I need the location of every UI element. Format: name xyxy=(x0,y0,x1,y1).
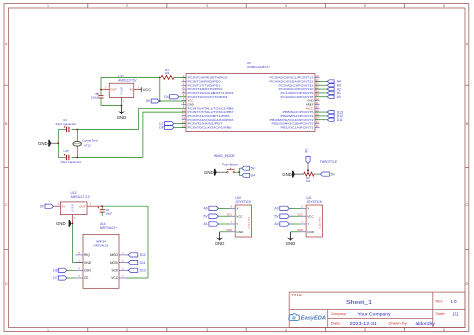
svg-text:D4: D4 xyxy=(251,174,255,178)
svg-text:JOYSTICK: JOYSTICK xyxy=(235,200,252,204)
svg-text:REV:: REV: xyxy=(436,300,444,304)
svg-text:Joystick PS2: Joystick PS2 xyxy=(318,216,321,229)
net flag 5V xyxy=(204,214,230,218)
crystal XTL2 xyxy=(73,130,99,158)
ground below U12 xyxy=(117,106,127,120)
capacitor U15 22pf xyxy=(58,149,81,164)
net flag D13 xyxy=(315,110,343,114)
svg-text:NRF24L01: NRF24L01 xyxy=(94,243,109,247)
svg-text:WING_MODE: WING_MODE xyxy=(214,154,235,158)
wire 5V rail top xyxy=(100,77,102,89)
regulator U12 AMS1117-5V xyxy=(101,75,141,106)
capacitor C4 xyxy=(91,90,104,106)
net flag A3 xyxy=(315,83,341,87)
svg-text:Joystick PS2: Joystick PS2 xyxy=(247,216,250,229)
svg-text:2: 2 xyxy=(138,86,140,89)
svg-text:7: 7 xyxy=(122,252,124,255)
capacitor C8 10uF xyxy=(98,206,113,216)
svg-text:Date:: Date: xyxy=(331,321,342,325)
svg-text:IN: IN xyxy=(62,204,65,208)
svg-text:3: 3 xyxy=(105,86,107,89)
wire gnd bottom xyxy=(101,105,122,107)
svg-text:GND: GND xyxy=(226,228,232,232)
svg-text:Company:: Company: xyxy=(331,312,347,316)
svg-text:5V: 5V xyxy=(274,214,279,218)
joystick U10 xyxy=(226,196,252,237)
svg-text:IN: IN xyxy=(130,88,133,92)
svg-text:D4: D4 xyxy=(164,95,168,99)
svg-text:X: X xyxy=(236,207,238,211)
U6 left pins xyxy=(182,75,235,129)
U14 right pins xyxy=(110,252,127,280)
svg-text:1: 1 xyxy=(74,217,76,220)
svg-text:GND: GND xyxy=(236,230,244,234)
svg-text:5V: 5V xyxy=(331,172,336,176)
ground joystick xyxy=(286,232,301,246)
svg-text:NRF24L01+: NRF24L01+ xyxy=(100,226,117,230)
svg-text:THROTTLE: THROTTLE xyxy=(320,160,338,164)
net flag D12 miso xyxy=(127,253,146,257)
svg-text:GND: GND xyxy=(38,141,48,146)
svg-text:CE: CE xyxy=(84,276,88,280)
svg-text:22pf capacitor: 22pf capacitor xyxy=(61,160,82,164)
svg-text:D7: D7 xyxy=(53,276,57,280)
svg-text:GND: GND xyxy=(286,241,296,246)
svg-text:A: A xyxy=(5,41,8,46)
svg-text:5V: 5V xyxy=(146,99,151,103)
svg-text:JOYSTICK: JOYSTICK xyxy=(306,200,323,204)
net flag 5V throttle out xyxy=(320,172,335,176)
resistor R2 10k xyxy=(304,172,314,183)
svg-text:X: X xyxy=(307,207,309,211)
svg-text:A3: A3 xyxy=(274,207,278,211)
net flag 5V throttle vertical xyxy=(304,148,310,174)
svg-text:D8: D8 xyxy=(159,126,163,130)
svg-text:Drawn By:: Drawn By: xyxy=(389,321,409,325)
net flag A1 xyxy=(204,222,230,226)
svg-text:VCC: VCC xyxy=(227,212,233,216)
svg-text:5: 5 xyxy=(122,267,124,270)
module U14 NRF24L01+ xyxy=(83,222,119,288)
svg-text:D13: D13 xyxy=(140,269,146,273)
svg-text:D: D xyxy=(121,92,123,96)
wire xyxy=(217,171,227,173)
svg-text:PB1/OC1A/PCINT1: PB1/OC1A/PCINT1 xyxy=(281,125,315,129)
wire XTAL1 xyxy=(139,107,187,109)
svg-text:GND: GND xyxy=(215,241,225,246)
net flag D7 ce xyxy=(53,276,75,280)
svg-text:EasyEDA: EasyEDA xyxy=(301,316,326,322)
joystick U11 xyxy=(297,196,323,237)
net flag D11 mosi xyxy=(127,261,146,265)
svg-text:D12: D12 xyxy=(140,253,146,257)
svg-text:10k: 10k xyxy=(306,179,311,183)
wire 3.3V rail xyxy=(102,205,148,207)
net flag A3 xyxy=(274,206,300,210)
svg-text:Y: Y xyxy=(307,222,309,226)
net flag D8 xyxy=(159,125,186,129)
svg-text:aldorizky: aldorizky xyxy=(416,321,436,326)
svg-text:OUT: OUT xyxy=(79,204,86,208)
op IC U6 ATMEGA328-PU xyxy=(186,61,315,132)
push button S1 xyxy=(222,162,239,173)
ground throttle xyxy=(282,171,295,178)
wire xyxy=(314,173,320,175)
svg-text:2: 2 xyxy=(90,203,92,206)
svg-text:Sheet_1: Sheet_1 xyxy=(346,300,372,306)
svg-text:A4: A4 xyxy=(274,222,278,226)
wire xyxy=(295,173,304,175)
ground wing xyxy=(204,169,217,176)
net flag A0 xyxy=(315,95,341,99)
svg-text:Your Company: Your Company xyxy=(358,311,392,316)
net flag D4 xyxy=(164,95,186,99)
svg-text:OUT: OUT xyxy=(110,88,117,92)
svg-text:5V: 5V xyxy=(251,166,256,170)
svg-text:SCK: SCK xyxy=(111,269,118,273)
svg-text:GND: GND xyxy=(117,115,127,120)
svg-text:Y: Y xyxy=(301,220,303,224)
svg-text:AMS1117-5V: AMS1117-5V xyxy=(118,78,137,82)
net flag D7 xyxy=(159,122,186,126)
wire xyxy=(235,171,240,173)
svg-text:A: A xyxy=(466,41,469,46)
svg-text:2023-12-31: 2023-12-31 xyxy=(350,321,378,326)
svg-text:VCC: VCC xyxy=(143,87,152,92)
svg-text:XTL2: XTL2 xyxy=(84,143,91,147)
svg-text:U15: U15 xyxy=(63,149,69,153)
svg-text:IRQ: IRQ xyxy=(84,253,90,257)
svg-text:A0: A0 xyxy=(204,207,208,211)
svg-text:8: 8 xyxy=(78,252,80,255)
svg-text:D: D xyxy=(72,210,74,213)
svg-text:100uF: 100uF xyxy=(91,96,99,100)
svg-text:5V: 5V xyxy=(40,204,45,208)
svg-text:GND: GND xyxy=(84,261,92,265)
svg-text:Push Button: Push Button xyxy=(222,162,239,166)
net flag A4 xyxy=(274,222,300,226)
svg-text:22pf capacitor: 22pf capacitor xyxy=(56,122,77,126)
svg-text:VCC: VCC xyxy=(297,212,303,216)
U6 right pins xyxy=(270,75,320,129)
svg-text:D: D xyxy=(466,281,469,286)
svg-text:VCC: VCC xyxy=(307,214,314,218)
svg-text:MOSI: MOSI xyxy=(110,261,118,265)
net flag D13 sck xyxy=(127,268,146,272)
svg-text:1: 1 xyxy=(78,260,80,263)
svg-text:Crystal 5mm: Crystal 5mm xyxy=(82,139,99,143)
svg-text:GND: GND xyxy=(204,170,214,175)
ground crystal xyxy=(38,140,58,147)
svg-text:D11: D11 xyxy=(337,118,343,122)
svg-text:Y: Y xyxy=(230,220,232,224)
svg-text:4: 4 xyxy=(78,267,80,270)
U14 left pins xyxy=(75,252,91,280)
svg-text:C: C xyxy=(466,202,469,207)
net flag D12 xyxy=(315,114,343,118)
VCC power flag xyxy=(141,87,151,92)
net flag A4 xyxy=(315,80,341,84)
svg-text:D11: D11 xyxy=(140,261,146,265)
svg-text:ATMEGA328-PU: ATMEGA328-PU xyxy=(247,65,270,69)
net flag A2 xyxy=(315,87,341,91)
wire 5V to VCC pin xyxy=(159,77,161,101)
net flag 5V input xyxy=(40,204,60,208)
regulator U13 AMS1117-3.3 xyxy=(58,191,103,223)
svg-text:B: B xyxy=(466,121,469,126)
resistor R1 10k xyxy=(161,68,186,79)
svg-text:5V: 5V xyxy=(304,148,308,153)
net flag A1 xyxy=(315,91,341,95)
net flag 5V wing xyxy=(239,166,255,172)
svg-text:X: X xyxy=(301,205,303,209)
svg-text:GND: GND xyxy=(282,172,292,177)
wire gnd to NRF xyxy=(72,223,74,262)
net flag D11 xyxy=(315,118,343,122)
svg-text:Sheet:: Sheet: xyxy=(436,312,446,316)
wire XTAL2 xyxy=(143,111,186,113)
svg-text:VCC: VCC xyxy=(111,276,118,280)
svg-text:C: C xyxy=(5,202,8,207)
svg-text:PCINT0/CLKO/ICP1/PB0: PCINT0/CLKO/ICP1/PB0 xyxy=(188,125,233,129)
svg-text:X: X xyxy=(230,205,232,209)
net flag 5V xyxy=(274,214,300,218)
svg-text:PCINT20/XCK/T0/PD4: PCINT20/XCK/T0/PD4 xyxy=(188,95,229,99)
wire gnd vertical xyxy=(57,130,59,158)
svg-text:3: 3 xyxy=(58,203,60,206)
ground U13 xyxy=(56,220,71,227)
svg-text:2: 2 xyxy=(122,275,124,278)
svg-text:1/1: 1/1 xyxy=(453,311,460,316)
svg-text:3: 3 xyxy=(78,275,80,278)
svg-text:Y: Y xyxy=(236,222,238,226)
capacitor U9 22pf xyxy=(56,118,77,132)
net flag D4 wing xyxy=(239,172,255,177)
svg-text:10k: 10k xyxy=(165,71,170,75)
svg-text:1: 1 xyxy=(123,100,125,103)
title block xyxy=(289,292,465,327)
net flag 5V at VCC xyxy=(146,99,159,103)
svg-text:AMS1117-3.3: AMS1117-3.3 xyxy=(71,195,90,199)
svg-text:GND: GND xyxy=(56,221,66,226)
ground joystick xyxy=(215,232,230,246)
svg-text:GND: GND xyxy=(297,228,303,232)
svg-text:D8: D8 xyxy=(53,269,57,273)
svg-text:VCC: VCC xyxy=(236,214,243,218)
svg-text:5V: 5V xyxy=(204,214,209,218)
net flag D8 csn xyxy=(53,268,75,272)
svg-text:A1: A1 xyxy=(204,222,208,226)
net flag A0 xyxy=(204,206,230,210)
svg-text:TITLE:: TITLE: xyxy=(291,293,303,297)
svg-text:10uF: 10uF xyxy=(105,212,112,216)
EasyEDA logo xyxy=(289,314,300,321)
svg-text:1.0: 1.0 xyxy=(451,299,458,304)
svg-text:A0: A0 xyxy=(337,95,341,99)
svg-text:GND: GND xyxy=(307,230,315,234)
svg-text:6: 6 xyxy=(122,260,124,263)
svg-text:MISO: MISO xyxy=(110,253,119,257)
svg-text:B: B xyxy=(5,121,8,126)
svg-text:D: D xyxy=(5,281,8,286)
svg-text:CSN: CSN xyxy=(84,269,91,273)
